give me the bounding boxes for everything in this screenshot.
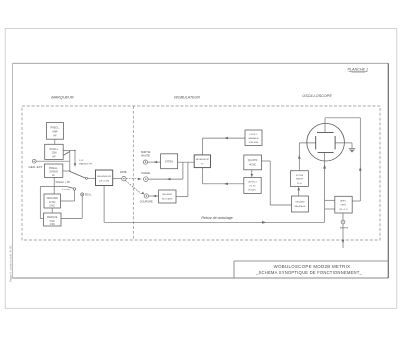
svg-text:OSCILL.: OSCILL.: [249, 134, 258, 136]
svg-text:RELAXAT: RELAXAT: [295, 200, 305, 203]
svg-text:BLOCAGE: BLOCAGE: [162, 198, 173, 201]
svg-text:MELANGEUR: MELANGEUR: [97, 175, 111, 178]
svg-text:24 kc: 24 kc: [297, 183, 303, 185]
svg-text:VERT.: VERT.: [340, 205, 347, 207]
svg-text:GRAVE: GRAVE: [49, 170, 58, 173]
svg-text:10 MC: 10 MC: [49, 202, 56, 204]
svg-text:5 MC: 5 MC: [49, 205, 55, 207]
svg-text:20M: 20M: [52, 152, 57, 155]
svg-text:MARQUE HF: MARQUE HF: [79, 162, 93, 165]
svg-text:externe: externe: [340, 226, 349, 229]
svg-text:FILTRE: FILTRE: [296, 175, 304, 177]
svg-text:WOBUL.: WOBUL.: [248, 190, 257, 192]
svg-text:WOB: WOB: [120, 170, 127, 174]
svg-text:Rappel 1 : poids du wob. 30 MC: Rappel 1 : poids du wob. 30 MC: [9, 245, 13, 282]
svg-text:(2F+4,7M): (2F+4,7M): [99, 181, 109, 183]
svg-text:HF: HF: [53, 134, 57, 137]
svg-text:QUARTZ: QUARTZ: [248, 159, 258, 162]
svg-text:0,5V: 0,5V: [79, 160, 84, 162]
svg-text:1 MC: 1 MC: [49, 224, 55, 226]
svg-text:F1-F2: F1-F2: [250, 186, 257, 188]
svg-text:PLANCHE 1: PLANCHE 1: [348, 68, 369, 72]
svg-text:PREGL.: PREGL.: [49, 167, 58, 170]
svg-text:MELANGEUR: MELANGEUR: [196, 158, 210, 161]
svg-text:WOBULATEUR: WOBULATEUR: [174, 96, 200, 100]
svg-text:RELAXAT.: RELAXAT.: [162, 193, 173, 196]
svg-text:GEN. EXT: GEN. EXT: [29, 165, 43, 169]
svg-text:PREGL.: PREGL.: [50, 126, 59, 129]
svg-text:MARQUE: MARQUE: [47, 216, 58, 219]
svg-text:40M-46M: 40M-46M: [249, 142, 258, 144]
svg-text:MARQUEUR: MARQUEUR: [51, 96, 73, 100]
svg-text:AMP: AMP: [52, 130, 58, 133]
svg-text:DETECT.: DETECT.: [248, 182, 258, 184]
svg-text:COUPURE: COUPURE: [140, 200, 153, 204]
svg-text:WOBULOSCOPE MOD2B METRIX: WOBULOSCOPE MOD2B METRIX: [274, 264, 351, 269]
svg-text:IMAGE: IMAGE: [141, 171, 150, 175]
svg-text:VARIABLE: VARIABLE: [248, 137, 259, 140]
svg-text:SORTIE: SORTIE: [141, 150, 151, 154]
svg-text:PASSE: PASSE: [296, 178, 304, 181]
svg-text:Retour de wobulage: Retour de wobulage: [201, 216, 232, 220]
svg-text:(2F+4,7): (2F+4,7): [339, 209, 348, 211]
svg-text:46 MC: 46 MC: [249, 164, 256, 167]
svg-text:SIGNAL + HF: SIGNAL + HF: [56, 181, 71, 184]
svg-text:_SCHEMA SYNOPTIQUE DE FONCT: _SCHEMA SYNOPTIQUE DE FONCTIONNEMENT_: [255, 270, 363, 275]
svg-text:OSCILL.: OSCILL.: [49, 148, 59, 151]
svg-text:OSCILLOSCOPE: OSCILLOSCOPE: [302, 94, 332, 98]
svg-text:LF: LF: [52, 174, 55, 177]
svg-text:BALAYAGE: BALAYAGE: [295, 205, 306, 208]
svg-text:GRAVURE: GRAVURE: [47, 197, 59, 200]
svg-text:4 circuits: 4 circuits: [62, 188, 70, 191]
svg-text:HF: HF: [52, 155, 56, 158]
svg-text:5 MC: 5 MC: [49, 221, 55, 223]
svg-text:AMPL.: AMPL.: [340, 200, 347, 203]
svg-text:HAUTE: HAUTE: [141, 154, 150, 158]
svg-text:REGL: REGL: [85, 193, 92, 196]
svg-text:ATTEN: ATTEN: [165, 160, 173, 164]
